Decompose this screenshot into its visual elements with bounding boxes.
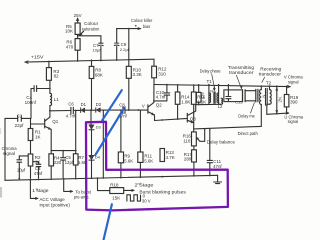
svg-text:100nf: 100nf <box>25 100 37 105</box>
svg-text:C6: C6 <box>68 102 74 107</box>
svg-text:saturation: saturation <box>82 26 100 31</box>
svg-text:30 V: 30 V <box>142 199 151 204</box>
svg-text:st: st <box>36 187 38 191</box>
svg-text:Q1: Q1 <box>52 119 59 124</box>
svg-text:V: V <box>142 104 145 109</box>
svg-text:signal: signal <box>288 79 299 84</box>
svg-text:10µf: 10µf <box>93 47 102 52</box>
svg-text:10µf: 10µf <box>17 167 26 172</box>
svg-text:transducer: transducer <box>229 70 254 75</box>
svg-text:2N: 2N <box>278 97 283 102</box>
svg-text:1K: 1K <box>35 134 41 139</box>
svg-text:nd: nd <box>137 181 141 185</box>
svg-text:Q2: Q2 <box>156 103 163 108</box>
svg-text:22pf: 22pf <box>15 123 25 128</box>
svg-text:10K: 10K <box>65 29 73 34</box>
svg-text:4.7nf: 4.7nf <box>156 95 167 100</box>
svg-text:47nf: 47nf <box>213 164 222 169</box>
svg-text:C1: C1 <box>17 114 23 119</box>
svg-text:390: 390 <box>290 100 298 105</box>
svg-text:470: 470 <box>66 44 74 49</box>
svg-text:220: 220 <box>54 160 62 165</box>
svg-text:5.6K: 5.6K <box>124 159 133 164</box>
svg-text:transducer: transducer <box>259 72 282 77</box>
svg-text:2.2µf: 2.2µf <box>120 47 130 52</box>
svg-text:4.7K: 4.7K <box>166 155 175 160</box>
svg-text:1 stage: 1 stage <box>32 188 49 193</box>
svg-text:Direct path: Direct path <box>238 131 259 136</box>
svg-text:68K: 68K <box>95 72 103 77</box>
svg-text:Colour killer: Colour killer <box>131 18 153 23</box>
svg-text:82: 82 <box>54 74 60 79</box>
svg-text:Colour: Colour <box>84 21 99 26</box>
svg-text:4.7nf: 4.7nf <box>66 114 76 119</box>
svg-text:D1: D1 <box>81 102 87 107</box>
svg-text:ACC Voltage: ACC Voltage <box>40 197 66 202</box>
svg-text:Delay phase: Delay phase <box>200 68 221 73</box>
svg-text:bias: bias <box>143 24 151 29</box>
svg-text:D3: D3 <box>96 125 102 130</box>
svg-text:N: N <box>210 88 213 93</box>
svg-text:Burst blanking pulses: Burst blanking pulses <box>139 189 186 194</box>
svg-text:L1: L1 <box>54 97 60 102</box>
svg-text:R18: R18 <box>110 183 119 188</box>
svg-text:C12: C12 <box>235 99 243 104</box>
svg-text:5.6K: 5.6K <box>144 158 153 163</box>
svg-text:input (positive): input (positive) <box>40 202 71 207</box>
svg-text:signal: signal <box>3 151 15 156</box>
svg-text:110: 110 <box>183 139 191 144</box>
svg-text:Q3: Q3 <box>190 117 197 122</box>
svg-text:3.3K: 3.3K <box>133 72 142 77</box>
svg-text:1K: 1K <box>35 160 41 165</box>
svg-text:1.5K: 1.5K <box>197 99 206 104</box>
svg-text:T2: T2 <box>266 80 272 85</box>
svg-text:12pf: 12pf <box>65 160 74 165</box>
svg-text:N: N <box>261 95 266 98</box>
svg-text:1.8K: 1.8K <box>181 99 190 104</box>
svg-text:signal: signal <box>288 119 299 124</box>
svg-text:280: 280 <box>184 157 192 162</box>
svg-text:+15V: +15V <box>31 54 44 59</box>
svg-text:25V: 25V <box>74 13 82 18</box>
svg-text:D2: D2 <box>96 102 102 107</box>
svg-text:15K: 15K <box>112 196 120 201</box>
svg-text:T1: T1 <box>207 79 213 84</box>
svg-text:476: 476 <box>200 92 205 99</box>
svg-text:310: 310 <box>158 72 166 77</box>
svg-text:L2: L2 <box>218 104 223 109</box>
svg-text:47nf: 47nf <box>34 171 43 176</box>
svg-text:Delay me: Delay me <box>238 114 255 119</box>
svg-text:Delay balance: Delay balance <box>207 140 236 145</box>
